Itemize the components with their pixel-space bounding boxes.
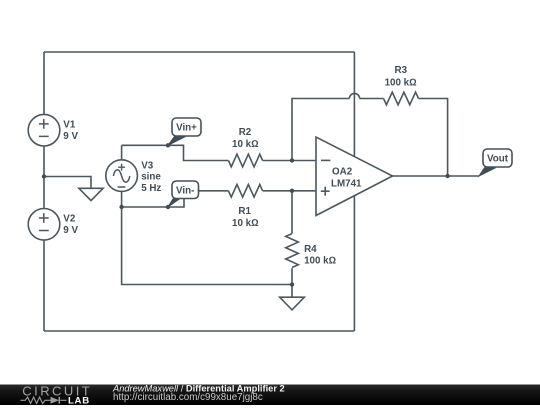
svg-text:10 kΩ: 10 kΩ [232,139,259,150]
resistor R3 body [384,92,419,105]
flag Vout [479,149,512,176]
node minus input junction [290,158,294,162]
wire left rail [43,52,45,331]
wire R1 right to op-amp plus input [263,190,316,192]
wire right rail (op-amp power) [353,52,355,331]
svg-text:OA2: OA2 [332,166,353,177]
wire R2 right to op-amp minus input [263,160,316,162]
flag Vin- [168,181,199,207]
svg-text:R4: R4 [304,244,317,255]
svg-text:5 Hz: 5 Hz [141,183,161,194]
wire V1-V2 midpoint to ground [44,177,91,189]
wire V3 bottom to Vin- node [122,191,184,207]
svg-text:http://circuitlab.com/c99x8ue7: http://circuitlab.com/c99x8ue7jgj8c [113,392,263,403]
svg-text:R1: R1 [238,206,251,217]
svg-text:LAB: LAB [68,396,90,405]
resistor R2 body [228,154,262,167]
svg-text:V3: V3 [141,160,154,171]
node Vin- [166,205,170,209]
resistor R1 body [228,185,262,198]
wire hop to R3 left [360,98,384,100]
svg-text:100 kΩ: 100 kΩ [304,255,336,266]
CircuitLab logo [21,384,93,407]
wire R4 top lead [291,191,293,234]
wire Vin- node to R1 [184,190,228,192]
wire top rail [44,51,354,53]
node plus input junction [290,189,294,193]
wire R3 right down to output [419,99,448,177]
svg-text:9 V: 9 V [63,131,78,142]
svg-text:V1: V1 [63,119,76,130]
node junction V1-V2 midpoint [42,174,46,178]
wire hop over power rail [349,93,359,98]
voltage source V1 [28,114,60,146]
op-amp OA2 (LM741) triangle [316,137,393,216]
node junction V3 bottom [119,205,123,209]
ground symbol near V1/V2 [79,188,103,200]
svg-text:LM741: LM741 [331,178,362,189]
wire V3 bottom down to R4 bottom [122,207,292,285]
svg-text:V2: V2 [63,213,76,224]
wire Vin+ node to R2 [122,145,229,160]
svg-text:10 kΩ: 10 kΩ [232,218,259,229]
svg-text:Vin-: Vin- [176,186,194,197]
svg-text:R3: R3 [395,65,408,76]
ground symbol below R4 [291,285,293,298]
wire feedback from minus node up [292,99,349,161]
wire bottom rail [44,330,354,332]
node R4 bottom junction [290,282,294,286]
voltage source V2 [28,209,60,241]
wire R4 bottom lead [291,268,293,284]
svg-text:100 kΩ: 100 kΩ [385,77,417,88]
wire V3 top riser [121,145,123,160]
wire op-amp output to Vout [393,175,480,177]
voltage source V3 (sine) [106,160,138,192]
resistor R4 body [286,234,299,268]
svg-text:R2: R2 [239,127,252,138]
op-amp plus mark [321,187,330,196]
node Vin+ [166,143,170,147]
svg-text:Vin+: Vin+ [176,123,197,134]
node output junction [445,174,449,178]
op-amp minus mark [321,159,330,161]
flag Vin+ [168,118,201,145]
svg-text:sine: sine [141,172,161,183]
svg-text:9 V: 9 V [63,225,78,236]
svg-text:Vout: Vout [487,154,509,165]
